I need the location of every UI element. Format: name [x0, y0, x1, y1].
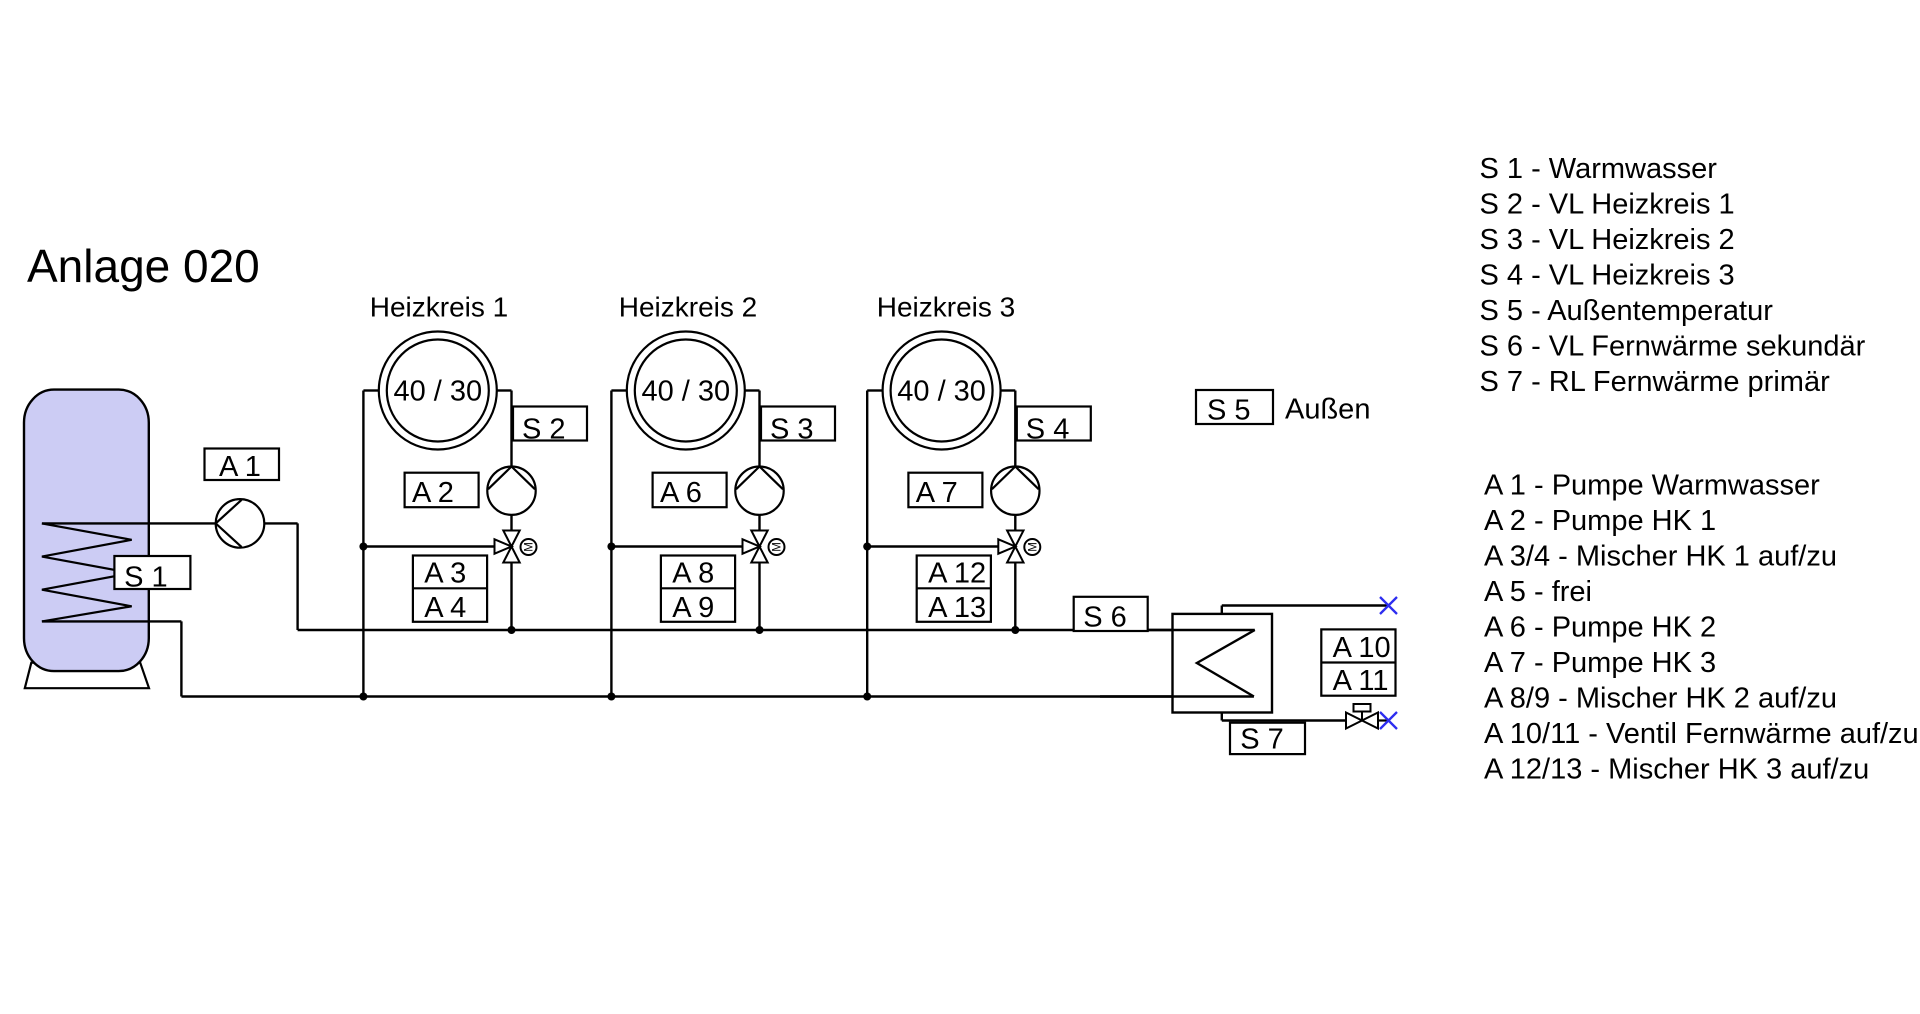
- label box A 12/A 13: [917, 556, 991, 625]
- svg-text:S 7: S 7: [1240, 724, 1284, 756]
- junction HK2 mixer branch: [607, 543, 615, 551]
- junction HK1 upper pipe: [508, 626, 516, 634]
- wire exchanger top stub: [1221, 606, 1223, 614]
- wire HK2 right drop to pump: [758, 391, 760, 467]
- sensor box S 2: [513, 407, 587, 446]
- terminal X primary supply: [1380, 597, 1397, 614]
- label box A 2: [405, 473, 479, 510]
- mixer motor M HK3: [1024, 539, 1040, 555]
- sensor box S 6: [1074, 597, 1148, 634]
- svg-text:S 4: S 4: [1026, 414, 1070, 446]
- wire mixer to upper pipe HK2: [758, 563, 760, 631]
- legend outputs: [1484, 469, 1919, 785]
- heat exchanger box: [1173, 614, 1273, 713]
- wire pump A1 outlet: [264, 522, 297, 524]
- wire lower pipe into exchanger: [1100, 695, 1254, 698]
- wire HK2 left drop: [610, 391, 612, 697]
- junction HK2 upper pipe: [756, 626, 764, 634]
- svg-text:Heizkreis 3: Heizkreis 3: [877, 292, 1015, 323]
- junction HK3 lower pipe: [863, 693, 871, 701]
- heizkreis 3 circle 40/30: [883, 332, 1001, 450]
- sensor box S 5: [1196, 390, 1273, 427]
- svg-text:S 2 - VL Heizkreis 1: S 2 - VL Heizkreis 1: [1480, 188, 1735, 220]
- svg-text:A 2 - Pumpe HK 1: A 2 - Pumpe HK 1: [1484, 505, 1716, 537]
- svg-text:S 3: S 3: [770, 414, 814, 446]
- svg-text:A 13: A 13: [928, 592, 986, 624]
- svg-text:Außen: Außen: [1285, 394, 1370, 426]
- sensor box S 4: [1017, 407, 1091, 446]
- svg-text:M: M: [524, 542, 536, 552]
- mixer motor M HK1: [521, 539, 537, 555]
- svg-text:A 8: A 8: [672, 558, 714, 590]
- label box A 10/A 11: [1321, 629, 1395, 696]
- wire pump to mixer HK3: [1014, 515, 1016, 531]
- svg-text:A 2: A 2: [412, 477, 454, 509]
- svg-text:S 6 - VL Fernwärme sekundär: S 6 - VL Fernwärme sekundär: [1480, 330, 1866, 362]
- wire HK3 right drop to pump: [1014, 391, 1016, 467]
- terminal X primary return: [1380, 712, 1397, 729]
- coil heat exchanger in tank: [42, 523, 132, 621]
- pump A 7: [991, 467, 1039, 515]
- wire stub left HK2: [611, 389, 626, 391]
- wire pump to mixer HK1: [510, 515, 512, 531]
- svg-text:A 8/9 - Mischer HK 2 auf/zu: A 8/9 - Mischer HK 2 auf/zu: [1484, 682, 1837, 714]
- svg-text:40 / 30: 40 / 30: [641, 376, 730, 408]
- wire HK1 right drop to pump: [510, 391, 512, 467]
- wire primary supply: [1222, 604, 1389, 606]
- heizkreis 1 circle 40/30: [379, 332, 497, 450]
- pump A 2: [487, 467, 535, 515]
- label box A 3/A 4: [413, 556, 487, 625]
- junction HK1 lower pipe: [359, 693, 367, 701]
- sensor box S 1: [114, 556, 190, 594]
- svg-text:A 12: A 12: [928, 558, 986, 590]
- wire stub left HK3: [867, 389, 882, 391]
- wire pump to mixer HK2: [758, 515, 760, 531]
- svg-text:S 1 - Warmwasser: S 1 - Warmwasser: [1480, 153, 1718, 185]
- svg-text:A 1: A 1: [219, 451, 261, 483]
- wire valve outlet: [1378, 719, 1387, 721]
- mixer motor M HK2: [769, 539, 785, 555]
- svg-text:A 10/11 - Ventil Fernwärme auf: A 10/11 - Ventil Fernwärme auf/zu: [1484, 718, 1919, 750]
- wire primary return: [1222, 719, 1346, 721]
- svg-text:A 10: A 10: [1333, 632, 1391, 664]
- upper main pipe VL: [298, 629, 1255, 632]
- svg-text:A 9: A 9: [672, 592, 714, 624]
- svg-text:40 / 30: 40 / 30: [393, 376, 482, 408]
- svg-text:Heizkreis 2: Heizkreis 2: [619, 292, 757, 323]
- svg-text:A 4: A 4: [424, 592, 466, 624]
- junction HK1 mixer branch: [359, 543, 367, 551]
- wire mixer to upper pipe HK3: [1014, 563, 1016, 631]
- wire coil top to pump A1: [42, 522, 216, 524]
- wire HK3 left drop: [866, 391, 868, 697]
- svg-text:S 5: S 5: [1207, 395, 1251, 427]
- svg-text:S 1: S 1: [124, 562, 168, 594]
- svg-text:A 5 - frei: A 5 - frei: [1484, 576, 1592, 608]
- tank foot: [25, 663, 149, 689]
- svg-text:A 3/4 - Mischer HK 1 auf/zu: A 3/4 - Mischer HK 1 auf/zu: [1484, 540, 1837, 572]
- wire HK1 left drop: [362, 391, 364, 697]
- svg-text:A 6: A 6: [660, 477, 702, 509]
- mixer valve HK2: [743, 531, 768, 563]
- label box A 1: [205, 449, 280, 484]
- svg-text:A 12/13 - Mischer HK 3 auf/zu: A 12/13 - Mischer HK 3 auf/zu: [1484, 753, 1869, 785]
- pump A1: [216, 499, 265, 548]
- wire HK2 mixer branch: [611, 545, 742, 547]
- wire upper pipe into exchanger: [1148, 629, 1255, 632]
- legend sensors: [1480, 153, 1866, 398]
- svg-text:40 / 30: 40 / 30: [897, 376, 986, 408]
- label box A 8/A 9: [661, 556, 735, 625]
- wire stub right HK2: [745, 389, 760, 391]
- label box A 7: [908, 473, 982, 510]
- svg-text:A 7: A 7: [916, 477, 958, 509]
- junction HK3 mixer branch: [863, 543, 871, 551]
- junction HK3 upper pipe: [1011, 626, 1019, 634]
- svg-text:A 6 - Pumpe HK 2: A 6 - Pumpe HK 2: [1484, 611, 1716, 643]
- svg-text:M: M: [1027, 542, 1039, 552]
- pump A 6: [735, 467, 783, 515]
- svg-text:S 2: S 2: [522, 414, 566, 446]
- wire down to lower pipe: [180, 621, 182, 696]
- svg-text:S 3 - VL Heizkreis 2: S 3 - VL Heizkreis 2: [1480, 224, 1735, 256]
- wire HK3 mixer branch: [867, 545, 998, 547]
- heizkreis 2 circle 40/30: [627, 332, 745, 450]
- wire stub left HK1: [363, 389, 378, 391]
- svg-text:S 6: S 6: [1083, 602, 1127, 634]
- svg-text:A 1 - Pumpe Warmwasser: A 1 - Pumpe Warmwasser: [1484, 469, 1820, 501]
- wire stub right HK1: [497, 389, 512, 391]
- svg-text:S 7 - RL Fernwärme primär: S 7 - RL Fernwärme primär: [1480, 366, 1831, 398]
- wire down to upper pipe: [296, 523, 298, 630]
- svg-text:M: M: [772, 542, 784, 552]
- svg-text:A 11: A 11: [1333, 665, 1389, 697]
- mixer valve HK3: [998, 531, 1023, 563]
- svg-text:Heizkreis 1: Heizkreis 1: [370, 292, 508, 323]
- svg-text:Anlage 020: Anlage 020: [27, 240, 260, 292]
- label box A 6: [653, 473, 727, 510]
- wire mixer to upper pipe HK1: [510, 563, 512, 631]
- wire exchanger bottom stub: [1221, 713, 1223, 721]
- wire stub right HK3: [1001, 389, 1016, 391]
- svg-text:A 7 - Pumpe HK 3: A 7 - Pumpe HK 3: [1484, 647, 1716, 679]
- svg-text:A 3: A 3: [424, 558, 466, 590]
- lower main pipe RL: [181, 695, 1254, 698]
- valve A10/11 Fernwaerme: [1346, 704, 1378, 729]
- heat exchanger zigzag: [1197, 630, 1255, 697]
- mixer valve HK1: [495, 531, 520, 563]
- sensor box S 3: [761, 407, 835, 446]
- storage tank: [24, 390, 149, 671]
- wire coil bottom out: [42, 620, 182, 622]
- wire HK1 mixer branch: [363, 545, 494, 547]
- sensor box S 7: [1230, 723, 1305, 756]
- svg-text:S 5 - Außentemperatur: S 5 - Außentemperatur: [1480, 295, 1774, 327]
- junction HK2 lower pipe: [607, 693, 615, 701]
- svg-text:S 4 - VL Heizkreis 3: S 4 - VL Heizkreis 3: [1480, 259, 1735, 291]
